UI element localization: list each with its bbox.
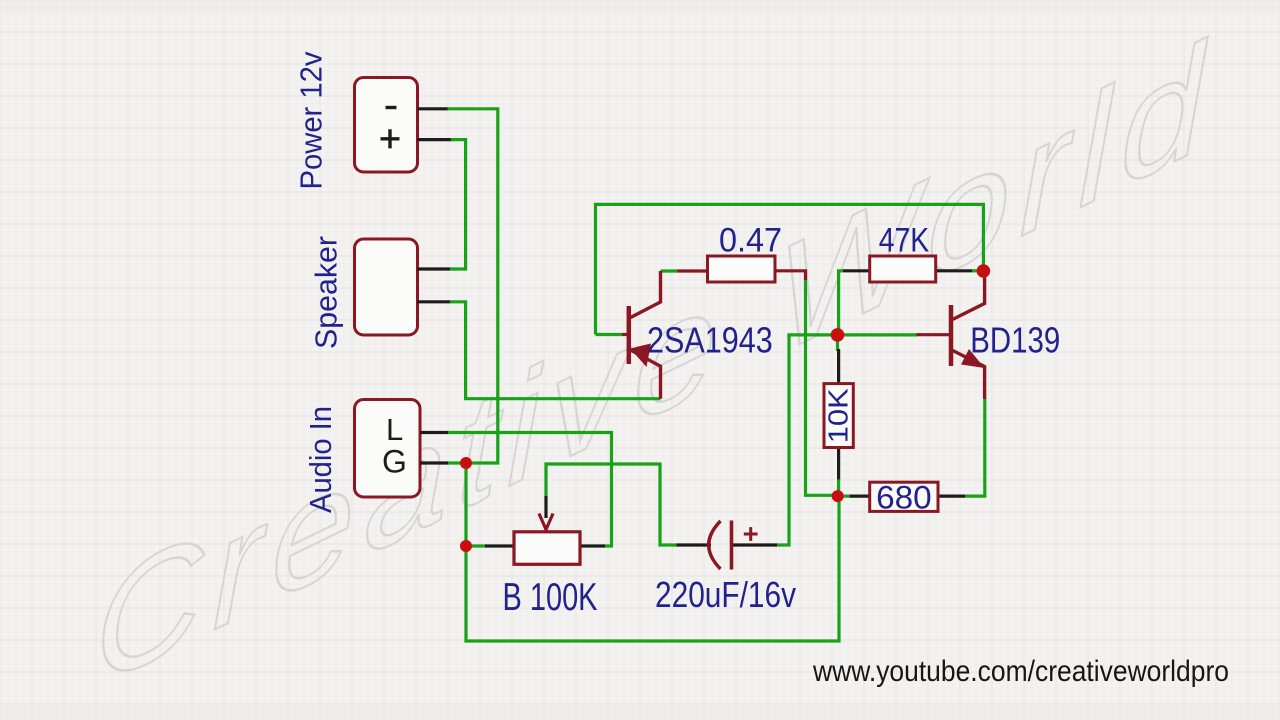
potentiometer B 100K xyxy=(514,532,580,565)
wire pot wiper black xyxy=(544,496,547,518)
wire cap negative lead black xyxy=(677,543,711,546)
wire pot left black xyxy=(485,544,515,547)
wire 2SA1943 base stub xyxy=(596,333,623,336)
wire 10K bottom lead black xyxy=(837,447,840,480)
junction node 680 left / 10K bottom / rail xyxy=(832,490,844,502)
svg-text:0.47: 0.47 xyxy=(719,221,782,259)
connector P1 Power 12v xyxy=(355,78,418,173)
wire 680 right lead black xyxy=(937,495,965,498)
wire speaker- to 2SA1943 emitter xyxy=(450,302,661,399)
transistor BD139 (NPN) xyxy=(951,271,985,399)
wire 47K right lead black xyxy=(935,269,972,272)
pin stub minus xyxy=(418,107,449,110)
svg-text:Power 12v: Power 12v xyxy=(294,51,329,189)
wire audio L to pot right terminal xyxy=(448,433,612,547)
svg-text:680: 680 xyxy=(876,480,932,516)
pin + (plus) xyxy=(381,129,400,148)
resistor 680 xyxy=(870,482,938,511)
svg-text:www.youtube.com/creativeworldp: www.youtube.com/creativeworldpro xyxy=(812,655,1229,688)
wire 47K left lead black xyxy=(843,269,871,272)
wire power minus to audio G net xyxy=(448,109,498,463)
lead BD139 base (red) xyxy=(917,333,952,336)
pin stub plus xyxy=(418,138,453,141)
svg-text:B 100K: B 100K xyxy=(503,576,598,619)
wire 680 left lead black xyxy=(850,495,871,498)
svg-text:2SA1943: 2SA1943 xyxy=(647,320,773,361)
lead 2SA1943 base (red) xyxy=(622,333,628,336)
wire power plus to speaker+ xyxy=(450,140,466,269)
wire 47K right lead green bit xyxy=(971,269,983,272)
svg-text:BD139: BD139 xyxy=(970,320,1060,361)
resistor 0.47 xyxy=(708,256,776,282)
transistor 2SA1943 (PNP) xyxy=(629,271,661,399)
svg-text:G: G xyxy=(382,444,407,480)
wire audio G stub xyxy=(448,461,466,464)
label Audio In xyxy=(303,406,338,513)
wire pot right black xyxy=(580,544,605,547)
wire cap positive up to base row xyxy=(776,335,918,545)
lead 0.47 right (red) xyxy=(774,271,806,280)
connector P2 Speaker xyxy=(355,239,418,335)
pin stub speaker- xyxy=(418,300,451,303)
svg-text:L: L xyxy=(386,412,403,447)
wire cap positive lead black xyxy=(732,543,778,546)
wire top rail xyxy=(596,204,984,334)
wire 47K left lead corner down to node xyxy=(839,271,844,335)
junction node pot left / ground rail xyxy=(460,540,472,552)
pin - (minus) xyxy=(386,106,397,109)
wire pot wiper to cap negative xyxy=(546,464,678,545)
svg-text:Audio In: Audio In xyxy=(303,406,338,513)
junction node BD139 base / 10K / cap+ xyxy=(831,328,845,342)
pin stub L xyxy=(420,431,449,434)
pin stub G xyxy=(420,461,449,464)
connector P3 Audio In xyxy=(355,400,421,498)
capacitor plus sign xyxy=(744,527,758,541)
value label 10K xyxy=(823,388,854,443)
wire ground vertical and bottom rail xyxy=(466,463,839,641)
wire 10K top lead black xyxy=(837,349,840,385)
svg-text:Speaker: Speaker xyxy=(309,236,344,349)
wire 10K bottom green bit xyxy=(839,478,851,496)
wire 680 right to BD139 emitter xyxy=(964,398,985,496)
svg-text:10K: 10K xyxy=(823,388,854,443)
pin stub speaker+ xyxy=(418,267,451,270)
label Speaker xyxy=(309,236,344,349)
wire 0.47 right lead down to 680 node xyxy=(806,279,838,495)
wire 2SA1943 collector stub xyxy=(661,269,679,272)
junction node audio G / power minus xyxy=(460,457,472,469)
capacitor 220uF/16v xyxy=(709,521,721,569)
junction node 47K right / BD139 collector xyxy=(977,264,991,278)
lead 0.47 left (red) xyxy=(678,269,709,272)
potentiometer wiper arrow xyxy=(539,514,553,530)
svg-text:220uF/16v: 220uF/16v xyxy=(655,574,796,615)
wire pot left terminal green xyxy=(466,544,486,547)
label Power 12v xyxy=(294,51,329,189)
svg-text:47K: 47K xyxy=(879,221,930,259)
wire 10K top green bit xyxy=(836,335,839,351)
resistor 10K (vertical) xyxy=(824,384,853,448)
resistor 47K xyxy=(870,256,936,282)
